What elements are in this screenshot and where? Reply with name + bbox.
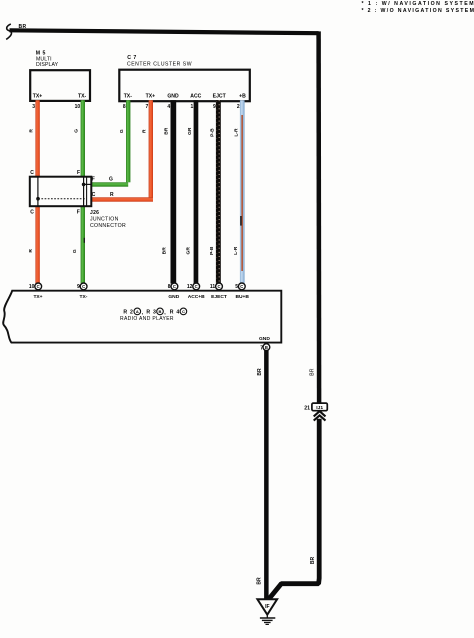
internal link green to F pin [84, 183, 91, 185]
svg-text:GND: GND [259, 336, 270, 342]
svg-text:C: C [92, 192, 96, 198]
black smudge on L-R wire [240, 216, 242, 226]
wire: BR harness, top horizontal run [10, 30, 319, 33]
svg-text:* 2 : W/O NAVIGATION SYSTEM: * 2 : W/O NAVIGATION SYSTEM [362, 8, 474, 14]
inner partition line [86, 177, 88, 207]
note legend: navigation system [362, 1, 474, 14]
svg-text:21: 21 [304, 406, 310, 412]
svg-text:IF: IF [265, 604, 269, 610]
svg-text:C: C [195, 284, 198, 289]
svg-text:RADIO AND PLAYER: RADIO AND PLAYER [120, 316, 174, 322]
junction dot (red) [36, 197, 40, 201]
wire R: M5 TX+ pin3 down to radio pin10 [35, 100, 39, 283]
svg-text:C: C [217, 284, 220, 289]
wire G: C7 TX- pin8 down then left to junction connector [126, 100, 130, 182]
svg-text:F: F [77, 210, 80, 216]
svg-text:R: R [29, 129, 35, 133]
radio pin 9 TX- [77, 283, 88, 300]
wire break squiggle top-left [6, 24, 11, 39]
svg-text:TX-: TX- [124, 93, 133, 99]
svg-text:C 7: C 7 [127, 55, 137, 61]
svg-text:ACC: ACC [190, 93, 201, 99]
svg-text:C: C [82, 284, 85, 289]
radio pin 10 TX+ [29, 283, 43, 300]
svg-text:L-R: L-R [233, 128, 239, 137]
radio pin 5 BU+B [235, 283, 249, 300]
svg-text:TX-: TX- [78, 93, 87, 99]
svg-text:10: 10 [75, 104, 81, 110]
svg-text:BR: BR [310, 368, 316, 376]
svg-text:C: C [30, 210, 34, 216]
svg-text:BR: BR [257, 368, 263, 376]
svg-text:C: C [30, 170, 34, 176]
radio pin 11 EJECT [210, 283, 227, 300]
chevron arrows under IJ1 [314, 411, 326, 420]
svg-text:R: R [141, 129, 147, 133]
svg-text:C: C [182, 309, 185, 314]
svg-text:4: 4 [167, 104, 170, 110]
svg-text:GR: GR [186, 247, 192, 255]
svg-text:BR: BR [310, 557, 316, 565]
ground IF symbol [257, 599, 277, 624]
label R 2 A, R 3 B, R 4 C [123, 308, 186, 316]
svg-text:M 5: M 5 [36, 50, 46, 56]
svg-text:EJECT: EJECT [211, 294, 227, 300]
svg-text:ACC+B: ACC+B [188, 294, 205, 300]
svg-text:BR: BR [257, 577, 263, 585]
wire BR: from IJ1 arrow down, left and to ground IF [269, 419, 320, 599]
internal wire path (green side) [83, 177, 85, 207]
radio pin 12 ACC+B [187, 283, 205, 300]
svg-text:8: 8 [123, 104, 126, 110]
svg-text:F: F [77, 170, 80, 176]
wire GR: C7 ACC pin1 down to radio pin12 [194, 100, 199, 283]
svg-text:GND: GND [168, 294, 179, 300]
component RADIO AND PLAYER box [3, 291, 281, 343]
svg-text:1: 1 [191, 104, 194, 110]
junction dot (green) [82, 183, 86, 187]
wire G: M5 TX- pin10 down to radio pin9 [81, 100, 85, 283]
svg-text:BU+B: BU+B [235, 294, 249, 300]
svg-text:7: 7 [146, 104, 149, 110]
svg-text:A: A [136, 309, 139, 314]
svg-text:TX+: TX+ [146, 93, 156, 99]
svg-text:TX+: TX+ [33, 294, 42, 300]
svg-text:8: 8 [168, 284, 171, 290]
svg-text:R 4: R 4 [170, 309, 180, 315]
svg-text:R 3: R 3 [146, 309, 156, 315]
svg-text:TX+: TX+ [33, 93, 43, 99]
svg-text:3: 3 [32, 104, 35, 110]
svg-text:L-R: L-R [233, 246, 239, 255]
svg-text:BR: BR [161, 247, 167, 255]
svg-text:B: B [265, 345, 268, 350]
connector IJ1 pin 21 [304, 403, 327, 411]
svg-text:JUNCTION: JUNCTION [90, 216, 119, 222]
svg-text:11: 11 [210, 284, 216, 290]
svg-text:G: G [109, 177, 113, 183]
svg-text:G: G [74, 129, 80, 133]
svg-text:F: F [92, 177, 95, 183]
svg-text:CONNECTOR: CONNECTOR [90, 223, 126, 229]
internal busbar dashed link [38, 198, 86, 200]
svg-text:9: 9 [213, 104, 216, 110]
svg-text:C: C [240, 284, 243, 289]
svg-text:DISPLAY: DISPLAY [36, 62, 59, 68]
wire P-B: C7 EJECT pin9 down to radio pin11 [216, 100, 221, 283]
svg-text:J26: J26 [90, 210, 99, 216]
wire BR: C7 GND pin4 down to radio pin8 [171, 100, 177, 283]
svg-text:P-B: P-B [209, 246, 215, 255]
red stripe on L-R wire [241, 115, 243, 271]
svg-text:R: R [28, 249, 34, 253]
svg-text:BR: BR [164, 127, 170, 135]
label J26 JUNCTION CONNECTOR [90, 210, 126, 229]
wire BR: radio pin7 down to ground IF [264, 350, 269, 599]
svg-text:* 1 : W/ NAVIGATION SYSTEM: * 1 : W/ NAVIGATION SYSTEM [362, 1, 474, 7]
svg-text:10: 10 [29, 284, 35, 290]
svg-text:C: C [37, 284, 40, 289]
wire R: C7 TX+ pin7 down then left to junction connector [149, 100, 153, 198]
svg-text:TX-: TX- [80, 294, 88, 300]
scan tick on green wire [84, 238, 85, 243]
svg-text:B: B [159, 309, 162, 314]
component M5 MULTI DISPLAY box [30, 50, 90, 100]
svg-text:P-B: P-B [209, 128, 215, 137]
internal wire path (red side) [37, 177, 39, 207]
wire L-R: C7 +B pin2 down to radio pin5 [240, 100, 245, 283]
component C7 CENTER CLUSTER SW box [119, 55, 250, 101]
wire: BR harness, right vertical run down to IJ1 [316, 31, 321, 403]
radio pin 8 GND [168, 283, 180, 300]
svg-text:R 2: R 2 [123, 309, 133, 315]
svg-text:2: 2 [237, 104, 240, 110]
svg-text:12: 12 [187, 284, 193, 290]
radio pin 7 GND (bottom) [259, 336, 270, 352]
svg-text:+B: +B [239, 93, 246, 99]
svg-text:CENTER CLUSTER SW: CENTER CLUSTER SW [127, 62, 192, 68]
svg-text:R: R [110, 192, 114, 198]
svg-text:GND: GND [167, 93, 179, 99]
junction connector J26 box [30, 177, 92, 207]
svg-text:G: G [119, 129, 125, 133]
svg-text:GR: GR [187, 127, 193, 135]
svg-text:G: G [72, 249, 78, 253]
svg-text:EJCT: EJCT [213, 93, 227, 99]
svg-text:C: C [173, 284, 176, 289]
